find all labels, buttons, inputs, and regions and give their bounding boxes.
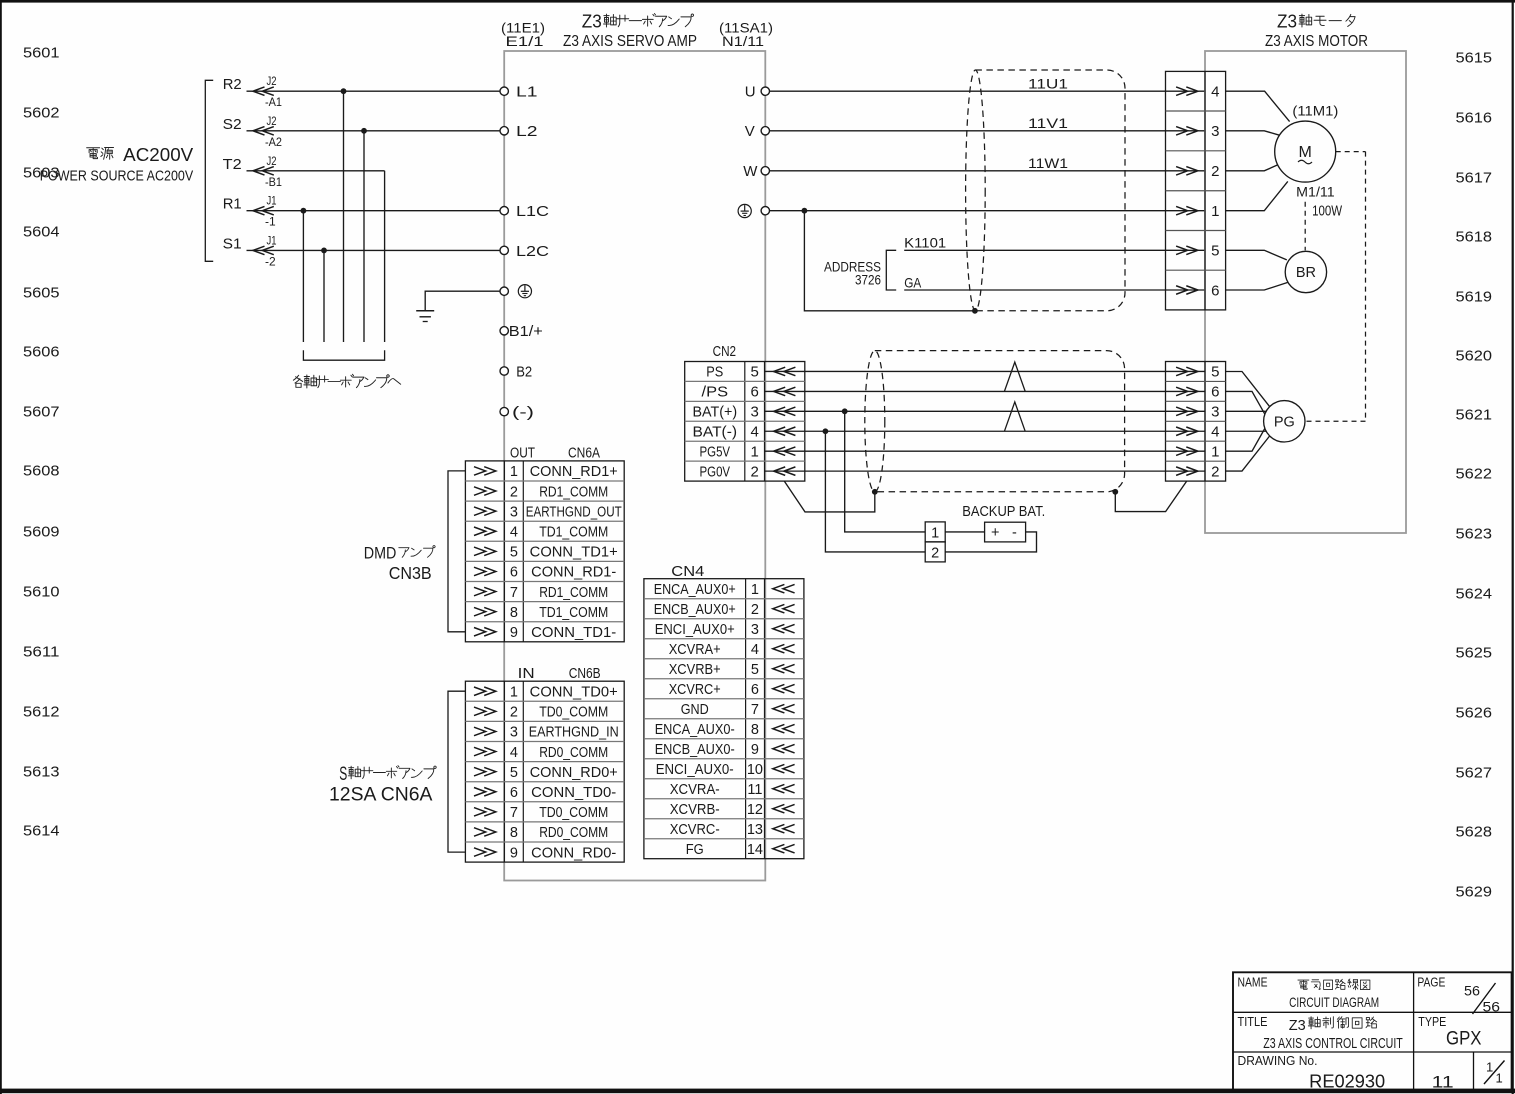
brake BR bbox=[1285, 251, 1326, 292]
svg-text:5622: 5622 bbox=[1456, 466, 1493, 483]
wire: pin4 to PG bbox=[1226, 430, 1267, 432]
wire: drop from R2 junction bbox=[341, 88, 347, 342]
svg-text:/PS: /PS bbox=[702, 385, 729, 401]
svg-text:PS: PS bbox=[706, 365, 723, 381]
svg-text:DRAWING No.: DRAWING No. bbox=[1238, 1053, 1318, 1068]
terminal W bbox=[743, 163, 769, 180]
dashed link motor to PG bbox=[1305, 152, 1366, 422]
svg-text:5624: 5624 bbox=[1456, 586, 1493, 603]
svg-text:V: V bbox=[745, 123, 755, 140]
label: servo amp header bbox=[501, 10, 773, 49]
svg-text:1: 1 bbox=[931, 525, 939, 541]
svg-text:3: 3 bbox=[510, 504, 518, 520]
wire 11V1: V to motor connector bbox=[770, 115, 1206, 131]
svg-text:Z3 AXIS SERVO AMP: Z3 AXIS SERVO AMP bbox=[563, 33, 697, 50]
svg-text:2: 2 bbox=[510, 484, 518, 500]
svg-text:DMD: DMD bbox=[364, 543, 397, 562]
svg-text:5: 5 bbox=[751, 662, 759, 678]
wire: battery - loop to pin2 bbox=[945, 532, 1036, 552]
junction BAT(-) bbox=[823, 428, 829, 434]
wire: pin3 to PG bbox=[1226, 410, 1267, 412]
wire: pin5 to brake bbox=[1226, 250, 1287, 260]
bracket for power input group bbox=[205, 80, 213, 261]
junction BAT(+) bbox=[842, 408, 848, 414]
wire: BAT(+) drop to backup battery bbox=[845, 411, 926, 532]
input line R2 (J2-A1) bbox=[223, 74, 505, 109]
svg-text:J2: J2 bbox=[267, 74, 277, 88]
svg-text:5605: 5605 bbox=[23, 285, 60, 302]
svg-text:5: 5 bbox=[510, 545, 518, 561]
svg-text:1: 1 bbox=[1486, 1060, 1493, 1075]
svg-text:Z3 AXIS MOTOR: Z3 AXIS MOTOR bbox=[1265, 33, 1368, 50]
svg-text:5606: 5606 bbox=[23, 344, 60, 361]
net line numbers right column bbox=[1456, 50, 1493, 901]
svg-text:W: W bbox=[743, 163, 758, 180]
svg-text:-: - bbox=[1012, 525, 1017, 541]
input line R1 (J1-1) bbox=[223, 194, 505, 229]
svg-text:Z3: Z3 bbox=[1277, 10, 1297, 31]
svg-text:5613: 5613 bbox=[23, 764, 60, 781]
svg-text:ENCB_AUX0-: ENCB_AUX0- bbox=[655, 742, 735, 758]
svg-text:XCVRC-: XCVRC- bbox=[670, 822, 720, 838]
svg-text:5607: 5607 bbox=[23, 404, 60, 421]
svg-text:1: 1 bbox=[751, 443, 759, 460]
svg-text:J2: J2 bbox=[267, 154, 277, 168]
svg-text:+: + bbox=[991, 525, 999, 541]
connector CN6B (IN) bbox=[465, 666, 624, 862]
svg-text:XCVRA+: XCVRA+ bbox=[669, 642, 721, 658]
ground symbol bbox=[416, 311, 434, 322]
svg-text:J2: J2 bbox=[267, 114, 277, 128]
svg-text:5623: 5623 bbox=[1456, 526, 1493, 543]
svg-text:5611: 5611 bbox=[23, 644, 60, 661]
svg-text:CONN_RD1-: CONN_RD1- bbox=[531, 565, 616, 581]
svg-text:BACKUP BAT.: BACKUP BAT. bbox=[962, 504, 1045, 520]
svg-text:2: 2 bbox=[1211, 163, 1219, 180]
svg-text:CONN_RD0+: CONN_RD0+ bbox=[530, 765, 618, 781]
wire: pin3 to motor bbox=[1226, 131, 1280, 136]
svg-text:ENCA_AUX0-: ENCA_AUX0- bbox=[655, 722, 735, 738]
svg-text:5: 5 bbox=[1211, 243, 1219, 260]
svg-text:TD1_COMM: TD1_COMM bbox=[539, 524, 608, 540]
svg-text:(-): (-) bbox=[512, 404, 534, 421]
svg-text:TYPE: TYPE bbox=[1418, 1015, 1446, 1029]
svg-text:PG: PG bbox=[1274, 415, 1295, 431]
svg-text:4: 4 bbox=[751, 423, 759, 440]
servo amp U1 box (Z3 AXIS SERVO AMP) bbox=[504, 51, 765, 881]
bracket CN6A group bbox=[448, 471, 465, 632]
svg-text:6: 6 bbox=[510, 565, 518, 581]
svg-text:-1: -1 bbox=[265, 215, 276, 229]
svg-text:5601: 5601 bbox=[23, 45, 60, 62]
svg-text:ENCI_AUX0-: ENCI_AUX0- bbox=[656, 762, 734, 778]
svg-text:S1: S1 bbox=[223, 235, 242, 252]
svg-text:3: 3 bbox=[751, 622, 759, 638]
svg-text:K1101: K1101 bbox=[904, 235, 946, 251]
svg-text:GPX: GPX bbox=[1446, 1028, 1482, 1050]
label: motor header bbox=[1265, 10, 1368, 49]
svg-text:CIRCUIT DIAGRAM: CIRCUIT DIAGRAM bbox=[1289, 994, 1379, 1010]
wire BAT(+) to PG connector bbox=[765, 407, 1205, 416]
connector: encoder plug (pins 5,6,3,4,1,2) bbox=[1166, 362, 1226, 482]
wire: pin2 to PG bbox=[1226, 436, 1270, 471]
svg-text:1: 1 bbox=[751, 582, 759, 598]
svg-text:BAT(+): BAT(+) bbox=[693, 405, 738, 421]
svg-text:Z3: Z3 bbox=[1289, 1017, 1306, 1034]
svg-text:11: 11 bbox=[747, 782, 762, 798]
battery terminal pin 2 bbox=[925, 542, 945, 562]
svg-text:RD0_COMM: RD0_COMM bbox=[539, 825, 608, 841]
wire /PS to PG connector bbox=[765, 387, 1205, 396]
svg-text:5614: 5614 bbox=[23, 823, 60, 840]
svg-text:S2: S2 bbox=[223, 116, 242, 133]
svg-text:12: 12 bbox=[747, 802, 763, 818]
svg-text:GND: GND bbox=[681, 702, 709, 718]
motor M1 (11M1) bbox=[1275, 103, 1343, 220]
wire PG5V to PG connector bbox=[765, 447, 1205, 456]
wire: pin1 to motor bbox=[1226, 181, 1288, 210]
svg-text:4: 4 bbox=[1211, 84, 1219, 101]
svg-text:CN4: CN4 bbox=[671, 564, 704, 580]
connector: motor power plug (pins 4,3,2,1,5,6) bbox=[1166, 71, 1226, 310]
svg-text:4: 4 bbox=[751, 642, 759, 658]
junction: shield right dot bbox=[1112, 489, 1118, 495]
svg-text:FG: FG bbox=[686, 842, 704, 858]
svg-text:1: 1 bbox=[510, 684, 518, 700]
svg-text:N1/11: N1/11 bbox=[722, 33, 764, 49]
svg-text:2: 2 bbox=[1211, 463, 1219, 480]
wire: CN2 shell to shield bbox=[784, 481, 875, 512]
svg-text:11: 11 bbox=[1432, 1073, 1454, 1092]
svg-text:5629: 5629 bbox=[1456, 884, 1493, 901]
junction: shield dot bbox=[972, 308, 978, 314]
wire K1101 bbox=[904, 235, 1205, 251]
svg-text:IN: IN bbox=[518, 666, 535, 682]
bracket: to each axis servo amp bbox=[303, 350, 384, 360]
svg-text:4: 4 bbox=[510, 745, 518, 761]
svg-text:-B1: -B1 bbox=[265, 175, 282, 189]
svg-text:5: 5 bbox=[1211, 364, 1219, 381]
svg-text:8: 8 bbox=[751, 722, 759, 738]
svg-text:3: 3 bbox=[510, 725, 518, 741]
svg-text:6: 6 bbox=[510, 785, 518, 801]
svg-text:3: 3 bbox=[1211, 404, 1219, 421]
terminal PE (amp right) bbox=[738, 204, 769, 217]
svg-text:56: 56 bbox=[1464, 983, 1480, 999]
svg-text:-A1: -A1 bbox=[265, 95, 282, 109]
svg-text:6: 6 bbox=[751, 682, 759, 698]
wire: PE to motor connector pin 1 bbox=[770, 208, 1206, 214]
svg-text:5608: 5608 bbox=[23, 463, 60, 480]
terminal L2C bbox=[500, 243, 549, 260]
svg-text:ENCB_AUX0+: ENCB_AUX0+ bbox=[654, 602, 736, 618]
svg-text:BR: BR bbox=[1296, 265, 1316, 281]
svg-text:14: 14 bbox=[747, 842, 763, 858]
svg-text:1: 1 bbox=[1496, 1071, 1503, 1086]
label: S axis servo amp 12SA CN6A bbox=[329, 764, 436, 806]
svg-text:5612: 5612 bbox=[23, 704, 60, 721]
svg-text:R2: R2 bbox=[223, 76, 242, 93]
connector CN6A (OUT) bbox=[465, 446, 624, 642]
input line T2 (J2-B1) bbox=[223, 154, 385, 189]
svg-text:RD0_COMM: RD0_COMM bbox=[539, 745, 608, 761]
terminal L2 bbox=[500, 123, 538, 140]
wire PG0V to PG connector bbox=[765, 467, 1205, 476]
label: DMD amp CN3B bbox=[364, 543, 435, 583]
svg-text:(11M1): (11M1) bbox=[1292, 103, 1338, 119]
svg-text:NAME: NAME bbox=[1238, 976, 1268, 990]
terminal V bbox=[745, 123, 770, 140]
svg-text:J1: J1 bbox=[267, 233, 277, 247]
svg-text:ENCI_AUX0+: ENCI_AUX0+ bbox=[655, 622, 735, 638]
svg-text:5617: 5617 bbox=[1456, 170, 1493, 187]
wire: pin1 to PG bbox=[1226, 429, 1265, 452]
svg-text:5602: 5602 bbox=[23, 105, 60, 122]
battery terminal pin 1 bbox=[925, 522, 945, 542]
svg-text:CN6A: CN6A bbox=[568, 446, 600, 462]
svg-text:PG0V: PG0V bbox=[700, 464, 731, 480]
svg-text:XCVRC+: XCVRC+ bbox=[669, 682, 721, 698]
svg-text:8: 8 bbox=[510, 605, 518, 621]
svg-text:5621: 5621 bbox=[1456, 407, 1493, 424]
svg-text:2: 2 bbox=[751, 602, 759, 618]
pulse generator PG bbox=[1264, 401, 1305, 442]
wire: pin2 to motor bbox=[1226, 165, 1278, 171]
wire: pin1 to battery + bbox=[945, 531, 984, 533]
connector CN2 bbox=[685, 344, 805, 481]
svg-text:B1/+: B1/+ bbox=[509, 323, 543, 340]
wire: drop from R1 junction bbox=[301, 208, 307, 342]
svg-text:J1: J1 bbox=[267, 194, 277, 208]
svg-text:CONN_TD0-: CONN_TD0- bbox=[531, 785, 616, 801]
bracket + label ADDRESS 3726 bbox=[824, 250, 896, 290]
svg-text:11U1: 11U1 bbox=[1028, 76, 1068, 92]
input line S1 (J1-2) bbox=[223, 233, 505, 268]
svg-text:POWER SOURCE AC200V: POWER SOURCE AC200V bbox=[40, 168, 194, 185]
terminal B2 bbox=[500, 363, 532, 380]
title block bbox=[1233, 972, 1512, 1091]
wire: pin6 to PG bbox=[1226, 391, 1265, 414]
junction: shield left dot bbox=[872, 489, 878, 495]
svg-text:CONN_RD0-: CONN_RD0- bbox=[531, 845, 616, 861]
svg-text:5619: 5619 bbox=[1456, 289, 1493, 306]
svg-text:TITLE: TITLE bbox=[1238, 1015, 1268, 1029]
svg-text:PG5V: PG5V bbox=[700, 444, 731, 460]
svg-text:9: 9 bbox=[751, 742, 759, 758]
svg-text:XCVRB+: XCVRB+ bbox=[669, 662, 721, 678]
svg-text:CONN_TD1-: CONN_TD1- bbox=[531, 625, 616, 641]
svg-text:5: 5 bbox=[510, 765, 518, 781]
svg-text:RD1_COMM: RD1_COMM bbox=[539, 585, 608, 601]
svg-text:RD1_COMM: RD1_COMM bbox=[539, 484, 608, 500]
svg-text:3: 3 bbox=[751, 404, 759, 421]
svg-text:2: 2 bbox=[510, 705, 518, 721]
svg-text:5620: 5620 bbox=[1456, 348, 1493, 365]
terminal L1C bbox=[500, 203, 549, 220]
svg-text:5604: 5604 bbox=[23, 224, 60, 241]
svg-text:13: 13 bbox=[747, 822, 763, 838]
svg-text:R1: R1 bbox=[223, 196, 242, 213]
terminal U bbox=[745, 84, 770, 101]
svg-text:ENCA_AUX0+: ENCA_AUX0+ bbox=[654, 582, 736, 598]
svg-text:L2C: L2C bbox=[516, 243, 549, 260]
svg-text:5615: 5615 bbox=[1456, 50, 1493, 67]
svg-text:OUT: OUT bbox=[510, 446, 535, 462]
svg-text:RE02930: RE02930 bbox=[1309, 1072, 1385, 1092]
svg-text:Z3 AXIS CONTROL CIRCUIT: Z3 AXIS CONTROL CIRCUIT bbox=[1263, 1036, 1403, 1052]
input line S2 (J2-A2) bbox=[223, 114, 505, 149]
svg-text:L1: L1 bbox=[516, 84, 538, 101]
svg-text:Z3: Z3 bbox=[582, 10, 602, 31]
svg-text:M: M bbox=[1299, 144, 1312, 161]
svg-text:T2: T2 bbox=[223, 156, 242, 173]
svg-text:CN6B: CN6B bbox=[569, 666, 601, 682]
svg-text:L1C: L1C bbox=[516, 203, 549, 220]
svg-text:5628: 5628 bbox=[1456, 824, 1493, 841]
wire PS to PG connector bbox=[765, 367, 1205, 376]
svg-text:6: 6 bbox=[1211, 384, 1219, 401]
svg-text:BAT(-): BAT(-) bbox=[693, 424, 738, 440]
svg-text:S: S bbox=[339, 764, 347, 785]
svg-text:12SA CN6A: 12SA CN6A bbox=[329, 785, 433, 806]
svg-text:9: 9 bbox=[510, 625, 518, 641]
wire: drop from S1 junction bbox=[321, 248, 327, 343]
wire 11W1: W to motor connector bbox=[770, 155, 1206, 171]
label: power source AC200V bbox=[40, 144, 194, 185]
svg-text:1: 1 bbox=[510, 464, 518, 480]
wire: pin5 to PG bbox=[1226, 372, 1270, 407]
svg-text:4: 4 bbox=[510, 524, 518, 540]
svg-text:2: 2 bbox=[751, 463, 759, 480]
cable shield (encoder leads), dashed bbox=[865, 351, 1125, 492]
label: to each axis servo amp (JP) bbox=[293, 374, 400, 388]
svg-text:-2: -2 bbox=[265, 254, 276, 268]
svg-text:6: 6 bbox=[751, 384, 759, 401]
svg-text:5618: 5618 bbox=[1456, 229, 1493, 246]
svg-text:XCVRB-: XCVRB- bbox=[670, 802, 720, 818]
svg-text:TD0_COMM: TD0_COMM bbox=[539, 805, 608, 821]
connector CN4 bbox=[644, 564, 804, 859]
svg-text:11W1: 11W1 bbox=[1028, 155, 1068, 171]
wire: shield to PG connector shell bbox=[1115, 481, 1186, 511]
svg-text:XCVRA-: XCVRA- bbox=[670, 782, 720, 798]
svg-text:TD0_COMM: TD0_COMM bbox=[539, 705, 608, 721]
twisted pair mark BAT bbox=[1004, 402, 1025, 431]
svg-text:7: 7 bbox=[751, 702, 759, 718]
svg-text:EARTHGND_OUT: EARTHGND_OUT bbox=[526, 504, 622, 520]
wire: PE branch to cable shield bbox=[804, 211, 975, 311]
svg-text:7: 7 bbox=[510, 585, 518, 601]
svg-text:3: 3 bbox=[1211, 123, 1219, 140]
svg-text:E1/1: E1/1 bbox=[506, 33, 544, 49]
terminal (-) bbox=[500, 404, 534, 421]
svg-text:1: 1 bbox=[1211, 203, 1219, 220]
wire: PE terminal to ground bbox=[425, 291, 500, 311]
terminal L1 bbox=[500, 84, 538, 101]
svg-text:4: 4 bbox=[1211, 423, 1219, 440]
svg-text:AC200V: AC200V bbox=[123, 144, 194, 165]
svg-text:5625: 5625 bbox=[1456, 645, 1493, 662]
cable shield (motor leads), dashed bbox=[966, 70, 1125, 311]
svg-text:M1/11: M1/11 bbox=[1296, 183, 1335, 199]
svg-text:56: 56 bbox=[1483, 999, 1501, 1015]
svg-text:EARTHGND_IN: EARTHGND_IN bbox=[529, 725, 619, 741]
svg-text:1: 1 bbox=[1211, 443, 1219, 460]
svg-text:GA: GA bbox=[904, 274, 922, 290]
svg-text:CONN_TD1+: CONN_TD1+ bbox=[530, 545, 618, 561]
svg-text:CONN_TD0+: CONN_TD0+ bbox=[530, 684, 618, 700]
svg-text:2: 2 bbox=[931, 545, 939, 561]
svg-text:5609: 5609 bbox=[23, 524, 60, 541]
svg-text:L2: L2 bbox=[516, 123, 538, 140]
svg-text:CONN_RD1+: CONN_RD1+ bbox=[530, 464, 618, 480]
svg-text:5616: 5616 bbox=[1456, 110, 1493, 127]
terminal PE (amp left) bbox=[500, 285, 532, 298]
dashed link motor to brake bbox=[1304, 202, 1306, 251]
wire GA bbox=[904, 274, 1205, 290]
svg-text:5: 5 bbox=[751, 364, 759, 381]
twisted pair mark PS//PS bbox=[1004, 362, 1025, 391]
bracket CN6B group bbox=[448, 691, 465, 852]
svg-text:5610: 5610 bbox=[23, 584, 60, 601]
svg-text:9: 9 bbox=[510, 845, 518, 861]
wire: pin4 to motor bbox=[1226, 91, 1290, 121]
svg-text:5626: 5626 bbox=[1456, 705, 1493, 722]
svg-text:7: 7 bbox=[510, 805, 518, 821]
wire: drop from T2 corner bbox=[384, 171, 386, 342]
terminal B1/+ bbox=[500, 323, 543, 340]
svg-text:PAGE: PAGE bbox=[1417, 976, 1445, 990]
svg-text:5627: 5627 bbox=[1456, 765, 1493, 782]
wire BAT(-) to PG connector bbox=[765, 427, 1205, 436]
net line numbers left column bbox=[23, 45, 60, 840]
svg-text:10: 10 bbox=[747, 762, 763, 778]
svg-text:6: 6 bbox=[1211, 282, 1219, 299]
wire 11U1: U to motor connector bbox=[770, 76, 1206, 92]
svg-text:100W: 100W bbox=[1312, 204, 1342, 220]
svg-text:-A2: -A2 bbox=[265, 135, 282, 149]
wire: pin6 to brake bbox=[1226, 282, 1288, 290]
svg-text:B2: B2 bbox=[516, 363, 532, 380]
svg-text:TD1_COMM: TD1_COMM bbox=[539, 605, 608, 621]
svg-text:8: 8 bbox=[510, 825, 518, 841]
svg-text:CN2: CN2 bbox=[713, 344, 737, 360]
svg-text:CN3B: CN3B bbox=[389, 563, 432, 583]
wire: BAT(-) drop to backup battery bbox=[825, 431, 925, 552]
wire: drop from S2 junction bbox=[361, 128, 367, 342]
svg-text:11V1: 11V1 bbox=[1028, 115, 1068, 131]
backup battery BT1 bbox=[985, 522, 1026, 542]
motor box (Z3 AXIS MOTOR) bbox=[1205, 51, 1406, 533]
svg-text:U: U bbox=[745, 84, 756, 101]
svg-text:3726: 3726 bbox=[855, 272, 881, 287]
